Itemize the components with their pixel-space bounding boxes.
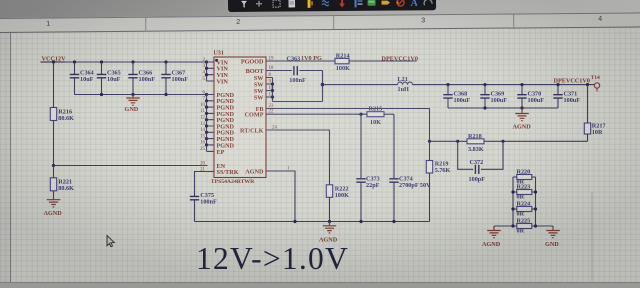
node C372 branch junctions xyxy=(456,140,505,143)
toolbar icon filter funnel xyxy=(241,1,247,8)
wire faint sheet line right xyxy=(591,192,593,281)
ground AGND ladder xyxy=(482,226,501,248)
svg-text:RT/CLK: RT/CLK xyxy=(240,127,264,134)
wire output caps ground rail xyxy=(448,107,558,109)
svg-text:100nF: 100nF xyxy=(200,199,217,206)
svg-text:BOOT: BOOT xyxy=(246,68,265,75)
svg-text:EP: EP xyxy=(217,149,225,156)
wire ladder left rail xyxy=(494,177,513,226)
svg-text:3.83K: 3.83K xyxy=(468,146,484,153)
svg-text:TPS54A24RTWR: TPS54A24RTWR xyxy=(211,179,255,185)
svg-text:11: 11 xyxy=(200,109,205,114)
resistor R223 xyxy=(513,184,536,201)
pin numbers U31 left xyxy=(200,58,205,173)
svg-text:15: 15 xyxy=(200,134,205,139)
wire SS/TRK to C375 xyxy=(195,172,208,197)
svg-text:C372: C372 xyxy=(470,159,484,166)
svg-text:2700pF 50V: 2700pF 50V xyxy=(399,182,431,189)
svg-text:13: 13 xyxy=(200,122,205,127)
wire AGND rail xyxy=(195,221,430,223)
toolbar icon blue waves xyxy=(322,1,329,6)
svg-text:80.6K: 80.6K xyxy=(58,185,74,192)
node output rail junctions xyxy=(446,83,589,86)
wire SW to inductor xyxy=(323,84,398,86)
svg-text:100uF: 100uF xyxy=(491,97,508,104)
svg-text:100uF: 100uF xyxy=(564,97,581,104)
capacitor C374 xyxy=(389,114,431,221)
svg-text:20: 20 xyxy=(200,161,205,166)
capacitor C366 xyxy=(128,62,155,95)
ground GND input xyxy=(125,95,140,114)
svg-text:U31: U31 xyxy=(214,50,224,56)
ground AGND mid xyxy=(319,222,338,244)
svg-text:100K: 100K xyxy=(335,192,349,199)
node AGND rail junctions xyxy=(293,220,395,223)
capacitor C372 xyxy=(458,141,503,183)
svg-text:PGOOD: PGOOD xyxy=(241,58,264,65)
svg-text:100K: 100K xyxy=(336,65,350,72)
svg-text:0R: 0R xyxy=(517,210,525,217)
ground AGND output caps xyxy=(513,108,532,131)
svg-text:GND: GND xyxy=(125,106,139,113)
svg-text:10K: 10K xyxy=(370,119,381,126)
svg-text:SS/TRK: SS/TRK xyxy=(217,169,239,176)
wire RT/CLK xyxy=(266,130,330,185)
resistor R214 xyxy=(335,53,417,72)
svg-text:1V0 PG: 1V0 PG xyxy=(301,55,322,62)
wire FB xyxy=(266,109,430,142)
svg-text:R224: R224 xyxy=(517,201,531,208)
capacitor C370 xyxy=(517,85,544,108)
resistor R215 xyxy=(367,106,394,126)
svg-text:14: 14 xyxy=(200,128,205,133)
svg-text:GND: GND xyxy=(545,241,559,248)
toolbar icon yellow cursor xyxy=(308,0,314,8)
node EN junction xyxy=(52,164,55,167)
svg-text:16: 16 xyxy=(200,141,205,146)
wire SW bus xyxy=(266,78,323,102)
svg-text:1uH: 1uH xyxy=(398,86,410,93)
wire VCC12V rail xyxy=(41,61,207,63)
svg-text:5: 5 xyxy=(203,77,206,82)
svg-text:80.6K: 80.6K xyxy=(58,115,74,122)
svg-text:12V->1.0V: 12V->1.0V xyxy=(196,241,349,276)
toolbar icon green block xyxy=(368,0,376,6)
svg-text:A: A xyxy=(410,0,418,9)
resistor R220 xyxy=(513,169,536,186)
resistor R221 xyxy=(50,166,74,200)
svg-text:100nF: 100nF xyxy=(172,76,189,83)
svg-text:VIN: VIN xyxy=(217,78,229,85)
node cap ground junctions xyxy=(100,93,208,96)
wire output rail xyxy=(413,84,595,86)
toolbar icon selection box xyxy=(273,0,280,7)
wire ladder right rail xyxy=(536,177,554,226)
toolbar icon red no-erc xyxy=(396,0,404,6)
node PGND bus junctions xyxy=(205,99,208,146)
op-amp U1 : converter IC U31 TPS54A24RTWR xyxy=(211,50,266,185)
svg-text:T14: T14 xyxy=(591,75,601,81)
svg-text:100uF: 100uF xyxy=(454,97,471,104)
svg-text:AGND: AGND xyxy=(513,124,532,131)
svg-text:100uF: 100uF xyxy=(528,97,545,104)
capacitor C371 xyxy=(553,85,580,108)
resistor R225 xyxy=(513,218,536,235)
capacitor C365 xyxy=(97,62,121,95)
svg-text:10uF: 10uF xyxy=(107,76,121,83)
svg-text:22pF: 22pF xyxy=(366,182,380,189)
node SW output junction xyxy=(321,83,325,87)
svg-text:SW: SW xyxy=(254,94,264,101)
wire input caps ground rail xyxy=(75,94,207,96)
svg-text:DPEVCC1V0: DPEVCC1V0 xyxy=(382,55,418,62)
toolbar icon blue bar lines xyxy=(355,0,363,7)
node VIN bus junctions xyxy=(205,67,208,77)
wire AGND pin 1 xyxy=(266,171,295,222)
svg-text:5.76K: 5.76K xyxy=(435,167,451,174)
wire VIN bus xyxy=(207,62,215,81)
toolbar icon plus xyxy=(256,1,262,7)
node ladder junctions xyxy=(511,190,537,227)
toolbar icon arc xyxy=(424,0,432,5)
node SW bus junctions xyxy=(271,82,274,98)
capacitor C368 xyxy=(443,85,470,108)
svg-text:0R: 0R xyxy=(517,193,525,200)
inductor L21 xyxy=(398,76,413,93)
svg-text:100nF: 100nF xyxy=(139,76,156,83)
capacitor C369 xyxy=(480,85,507,108)
resistor R219 xyxy=(426,141,450,221)
svg-text:R220: R220 xyxy=(517,169,531,176)
wire BOOT to SW vertical xyxy=(322,71,324,102)
svg-text:COMP: COMP xyxy=(245,112,264,119)
capacitor C375 xyxy=(190,192,217,221)
node COMP junction xyxy=(359,113,362,116)
wire EN xyxy=(54,165,208,167)
pin numbers U31 right xyxy=(269,56,291,171)
node output caps ground junctions xyxy=(483,106,523,109)
resistor R216 xyxy=(50,62,74,166)
svg-text:R225: R225 xyxy=(517,218,531,225)
svg-text:10: 10 xyxy=(200,103,205,108)
capacitor C363 xyxy=(266,56,323,84)
svg-text:DPEVCC1V0: DPEVCC1V0 xyxy=(554,78,590,85)
capacitor C367 xyxy=(161,62,188,95)
svg-text:R223: R223 xyxy=(517,184,531,191)
wire SS/TRK stub xyxy=(208,171,215,173)
svg-text:R214: R214 xyxy=(336,53,350,60)
resistor R224 xyxy=(513,201,536,218)
resistor R217 xyxy=(584,85,605,142)
svg-text:AGND: AGND xyxy=(44,210,63,217)
resistor R218 xyxy=(467,133,484,153)
terminal T14 xyxy=(591,75,601,92)
capacitor C373 xyxy=(356,114,379,221)
svg-text:R215: R215 xyxy=(369,106,383,113)
svg-text:12: 12 xyxy=(200,116,205,121)
svg-text:100nF: 100nF xyxy=(289,77,306,84)
svg-text:AGND: AGND xyxy=(482,241,501,248)
ground AGND left xyxy=(44,200,63,217)
wire COMP xyxy=(266,113,367,115)
svg-text:R218: R218 xyxy=(468,133,482,140)
wire PGOOD xyxy=(266,60,335,62)
svg-text:25: 25 xyxy=(200,147,205,152)
resistor R222 xyxy=(326,185,349,222)
node mouse cursor xyxy=(107,236,114,247)
toolbar icon red arrow down xyxy=(339,0,345,8)
node rail junctions xyxy=(52,60,208,63)
ground GND ladder xyxy=(545,226,560,248)
wire PGND bus xyxy=(207,95,215,152)
node FB junction xyxy=(428,140,431,143)
wire FB row xyxy=(430,140,588,142)
svg-text:C363: C363 xyxy=(287,56,301,63)
svg-text:AGND: AGND xyxy=(245,168,264,175)
svg-text:0R: 0R xyxy=(517,227,525,234)
toolbar icon yellow tag xyxy=(382,1,391,5)
toolbar icon sheet xyxy=(289,0,296,7)
capacitor C364 xyxy=(70,62,94,95)
power port VCC12V xyxy=(41,55,67,62)
svg-text:L21: L21 xyxy=(398,76,408,83)
svg-text:10uF: 10uF xyxy=(80,76,94,83)
svg-text:100pF: 100pF xyxy=(469,176,486,183)
svg-text:10R: 10R xyxy=(592,129,603,136)
